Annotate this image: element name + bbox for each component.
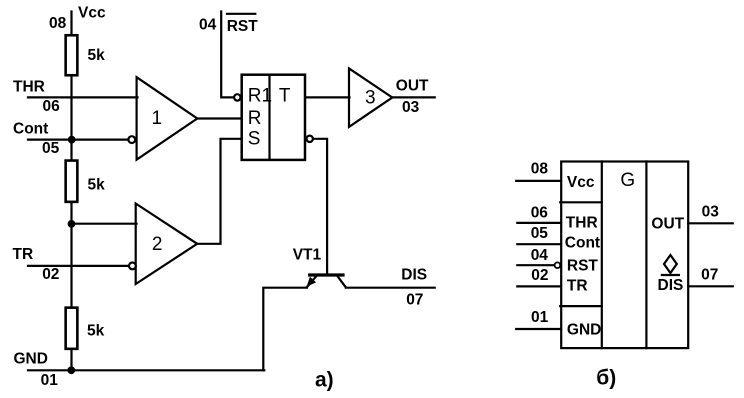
svg-text:DIS: DIS bbox=[658, 277, 684, 294]
svg-text:05: 05 bbox=[531, 225, 549, 242]
label RST IC bbox=[567, 257, 599, 274]
svg-text:Cont: Cont bbox=[565, 235, 600, 252]
svg-text:R1: R1 bbox=[248, 86, 272, 107]
svg-text:5k: 5k bbox=[88, 47, 106, 64]
label a) bbox=[315, 368, 334, 391]
svg-text:02: 02 bbox=[531, 267, 548, 284]
pin 05 wire IC bbox=[517, 243, 561, 245]
wire divider rail upper bbox=[70, 77, 72, 160]
svg-text:06: 06 bbox=[43, 98, 61, 115]
pin 03 label IC bbox=[702, 204, 720, 221]
pin 04 bbox=[199, 17, 217, 34]
node Cont bbox=[13, 121, 48, 138]
pin 05 bbox=[42, 140, 60, 157]
node DIS bbox=[401, 266, 427, 283]
svg-text:1: 1 bbox=[152, 108, 163, 129]
node Vcc bbox=[78, 5, 106, 22]
svg-text:03: 03 bbox=[402, 99, 420, 116]
pin 04 wire IC bbox=[517, 262, 560, 268]
pin 07 label IC bbox=[701, 267, 718, 284]
svg-text:07: 07 bbox=[406, 292, 423, 309]
resistor R3 5k lower bbox=[66, 308, 78, 349]
value label 5k upper bbox=[88, 47, 106, 64]
svg-text:OUT: OUT bbox=[651, 215, 684, 232]
label TR IC bbox=[567, 277, 588, 294]
svg-text:03: 03 bbox=[702, 204, 720, 221]
pin 08 wire IC bbox=[516, 180, 561, 182]
svg-text:R: R bbox=[248, 108, 262, 129]
node GND bbox=[14, 351, 48, 368]
svg-text:T: T bbox=[279, 86, 291, 107]
svg-text:02: 02 bbox=[42, 266, 59, 283]
label G bbox=[620, 170, 635, 191]
pin 01 label IC bbox=[531, 309, 549, 326]
buffer amplifier 3 bbox=[349, 68, 392, 127]
svg-text:04: 04 bbox=[199, 17, 217, 34]
svg-text:RST: RST bbox=[227, 18, 259, 35]
wire flip-flop output to buffer bbox=[306, 96, 350, 98]
svg-text:Vcc: Vcc bbox=[567, 174, 595, 191]
svg-text:GND: GND bbox=[567, 322, 601, 339]
svg-text:TR: TR bbox=[567, 277, 588, 294]
pin 02 bbox=[42, 266, 59, 283]
pin 08 label IC bbox=[531, 161, 549, 178]
svg-text:08: 08 bbox=[531, 161, 549, 178]
label b) bbox=[596, 366, 616, 389]
wire Cont pin 5 bbox=[28, 139, 129, 141]
svg-text:б): б) bbox=[596, 366, 616, 389]
wire divider rail middle bbox=[70, 203, 72, 307]
svg-text:5k: 5k bbox=[87, 322, 105, 339]
wire RST to R1 input bbox=[221, 12, 234, 98]
svg-text:G: G bbox=[620, 170, 635, 191]
label Vcc IC bbox=[567, 174, 595, 191]
svg-text:DIS: DIS bbox=[401, 266, 427, 283]
resistor R2 5k middle bbox=[66, 161, 78, 202]
wire TR pin 2 bbox=[28, 265, 129, 267]
svg-text:01: 01 bbox=[41, 372, 59, 389]
label THR IC bbox=[566, 215, 598, 232]
pin 05 label IC bbox=[531, 225, 549, 242]
pin 08 bbox=[49, 15, 67, 32]
svg-text:04: 04 bbox=[531, 247, 549, 264]
junction GND/divider bbox=[67, 366, 75, 374]
wire emitter to ground bbox=[263, 288, 307, 371]
pin 07 wire IC bbox=[688, 285, 733, 287]
label OUT IC bbox=[651, 215, 684, 232]
pin 03 wire IC bbox=[688, 222, 733, 224]
svg-text:06: 06 bbox=[531, 205, 549, 222]
svg-text:3: 3 bbox=[365, 87, 376, 108]
value label 5k middle bbox=[88, 177, 106, 194]
node RST (active low) bbox=[227, 14, 259, 35]
pin 04 label IC bbox=[531, 247, 549, 264]
svg-text:а): а) bbox=[315, 368, 334, 391]
wire collector to DIS pin 7 bbox=[346, 287, 435, 289]
label DIS IC bbox=[658, 277, 684, 294]
svg-text:07: 07 bbox=[701, 267, 718, 284]
wire divider rail lower bbox=[70, 349, 72, 370]
pin 01 bbox=[41, 372, 59, 389]
value label 5k lower bbox=[87, 322, 105, 339]
wire comparator 2 output to S input bbox=[197, 139, 240, 244]
wire comparator 1 output to R input bbox=[197, 117, 240, 119]
svg-text:RST: RST bbox=[567, 257, 599, 274]
node THR bbox=[13, 79, 45, 96]
pin 06 bbox=[43, 98, 61, 115]
wire OUT pin 3 bbox=[392, 96, 434, 98]
pin 06 wire IC bbox=[517, 222, 561, 224]
wire Vcc vertical bbox=[70, 12, 72, 36]
pin 07 bbox=[406, 292, 423, 309]
junction Cont/divider bbox=[68, 136, 76, 144]
svg-text:OUT: OUT bbox=[396, 78, 429, 95]
junction divider node bbox=[68, 220, 76, 228]
op-amp comparator 2 bbox=[129, 204, 197, 285]
svg-text:Vcc: Vcc bbox=[78, 5, 106, 22]
pin 01 wire IC bbox=[516, 328, 561, 330]
flip-flop U1 T bbox=[234, 75, 305, 160]
label GND IC bbox=[567, 322, 601, 339]
svg-text:01: 01 bbox=[531, 309, 549, 326]
resistor R1 5k upper bbox=[66, 35, 78, 75]
svg-text:VT1: VT1 bbox=[293, 246, 322, 263]
pin 06 label IC bbox=[531, 205, 549, 222]
svg-text:GND: GND bbox=[14, 351, 48, 368]
pin 02 wire IC bbox=[517, 285, 561, 287]
IC box DD1 bbox=[560, 162, 688, 349]
svg-text:TR: TR bbox=[13, 246, 34, 263]
wire flip-flop inverted output to transistor base bbox=[307, 136, 328, 274]
svg-text:S: S bbox=[248, 128, 261, 149]
svg-text:THR: THR bbox=[13, 79, 45, 96]
label Cont IC bbox=[565, 235, 600, 252]
svg-text:08: 08 bbox=[49, 15, 67, 32]
svg-text:THR: THR bbox=[566, 215, 598, 232]
wire comparator 2 noninverting input bbox=[72, 223, 137, 225]
node TR bbox=[13, 246, 34, 263]
svg-text:05: 05 bbox=[42, 140, 60, 157]
pin 03 bbox=[402, 99, 420, 116]
node OUT bbox=[396, 78, 429, 95]
wire GND pin 1 bbox=[28, 369, 264, 371]
svg-text:2: 2 bbox=[152, 234, 163, 255]
svg-text:5k: 5k bbox=[88, 177, 106, 194]
wire THR pin 6 bbox=[28, 96, 138, 98]
pin 02 label IC bbox=[531, 267, 548, 284]
op-amp comparator 1 bbox=[128, 77, 197, 160]
transistor VT1 bbox=[293, 246, 346, 287]
open-collector symbol bbox=[662, 255, 679, 275]
svg-text:Cont: Cont bbox=[13, 121, 48, 138]
